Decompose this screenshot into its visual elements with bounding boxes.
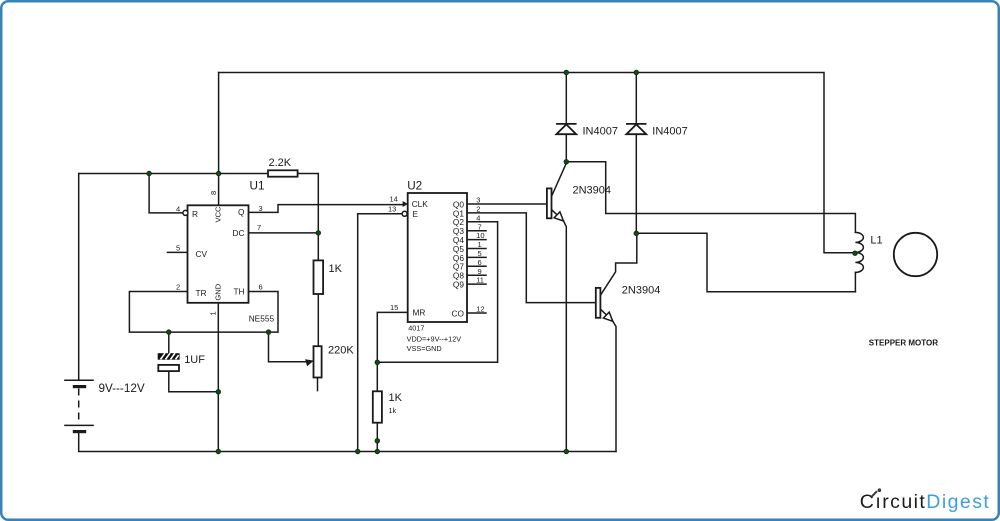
svg-text:CLK: CLK: [412, 199, 429, 209]
svg-text:9V---12V: 9V---12V: [99, 382, 145, 395]
svg-text:15: 15: [390, 303, 398, 312]
svg-text:CO: CO: [452, 308, 465, 318]
svg-text:TR: TR: [196, 288, 207, 298]
svg-text:4: 4: [176, 204, 180, 213]
svg-text:13: 13: [388, 204, 396, 213]
svg-text:2: 2: [476, 205, 480, 214]
svg-text:1: 1: [209, 311, 218, 315]
svg-text:2.2K: 2.2K: [269, 157, 292, 169]
svg-text:MR: MR: [413, 308, 426, 318]
svg-text:U1: U1: [250, 179, 265, 192]
svg-text:Q: Q: [238, 207, 245, 217]
svg-text:IN4007: IN4007: [583, 125, 618, 137]
svg-text:CV: CV: [196, 249, 208, 259]
svg-text:3: 3: [259, 204, 263, 213]
svg-text:VDD=+9V--+12V: VDD=+9V--+12V: [407, 334, 462, 343]
svg-text:1K: 1K: [389, 392, 403, 404]
svg-text:8: 8: [209, 191, 218, 195]
svg-text:6: 6: [259, 282, 263, 291]
svg-text:6: 6: [478, 258, 482, 267]
svg-text:10: 10: [476, 231, 484, 240]
svg-text:VCC: VCC: [214, 206, 223, 223]
svg-text:2N3904: 2N3904: [573, 185, 612, 197]
svg-text:14: 14: [390, 195, 398, 204]
svg-text:2: 2: [176, 282, 180, 291]
svg-text:3: 3: [476, 196, 480, 205]
svg-text:5: 5: [176, 243, 180, 252]
svg-text:1: 1: [478, 240, 482, 249]
svg-text:4017: 4017: [408, 323, 424, 332]
svg-text:7: 7: [257, 223, 261, 232]
svg-text:IN4007: IN4007: [652, 125, 687, 137]
svg-text:STEPPER MOTOR: STEPPER MOTOR: [869, 338, 938, 347]
svg-text:U2: U2: [407, 179, 422, 192]
svg-text:4: 4: [476, 213, 480, 222]
svg-text:DC: DC: [233, 228, 245, 238]
svg-text:2N3904: 2N3904: [622, 284, 661, 296]
svg-text:R: R: [192, 209, 198, 219]
svg-text:7: 7: [478, 222, 482, 231]
svg-text:9: 9: [478, 267, 482, 276]
svg-text:TH: TH: [233, 287, 244, 297]
svg-text:1k: 1k: [389, 406, 397, 415]
svg-text:1K: 1K: [329, 263, 343, 275]
svg-text:Q9: Q9: [453, 280, 464, 290]
svg-text:L1: L1: [870, 235, 882, 247]
svg-text:VSS=GND: VSS=GND: [407, 344, 442, 353]
svg-text:12: 12: [476, 305, 484, 314]
svg-text:NE555: NE555: [249, 313, 275, 323]
svg-text:CırcuitDigest: CırcuitDigest: [860, 491, 990, 513]
svg-text:11: 11: [476, 276, 484, 285]
svg-text:220K: 220K: [328, 345, 354, 357]
svg-text:5: 5: [478, 249, 482, 258]
svg-text:E: E: [413, 209, 419, 219]
svg-text:GND: GND: [214, 283, 223, 300]
svg-text:1UF: 1UF: [184, 354, 205, 366]
